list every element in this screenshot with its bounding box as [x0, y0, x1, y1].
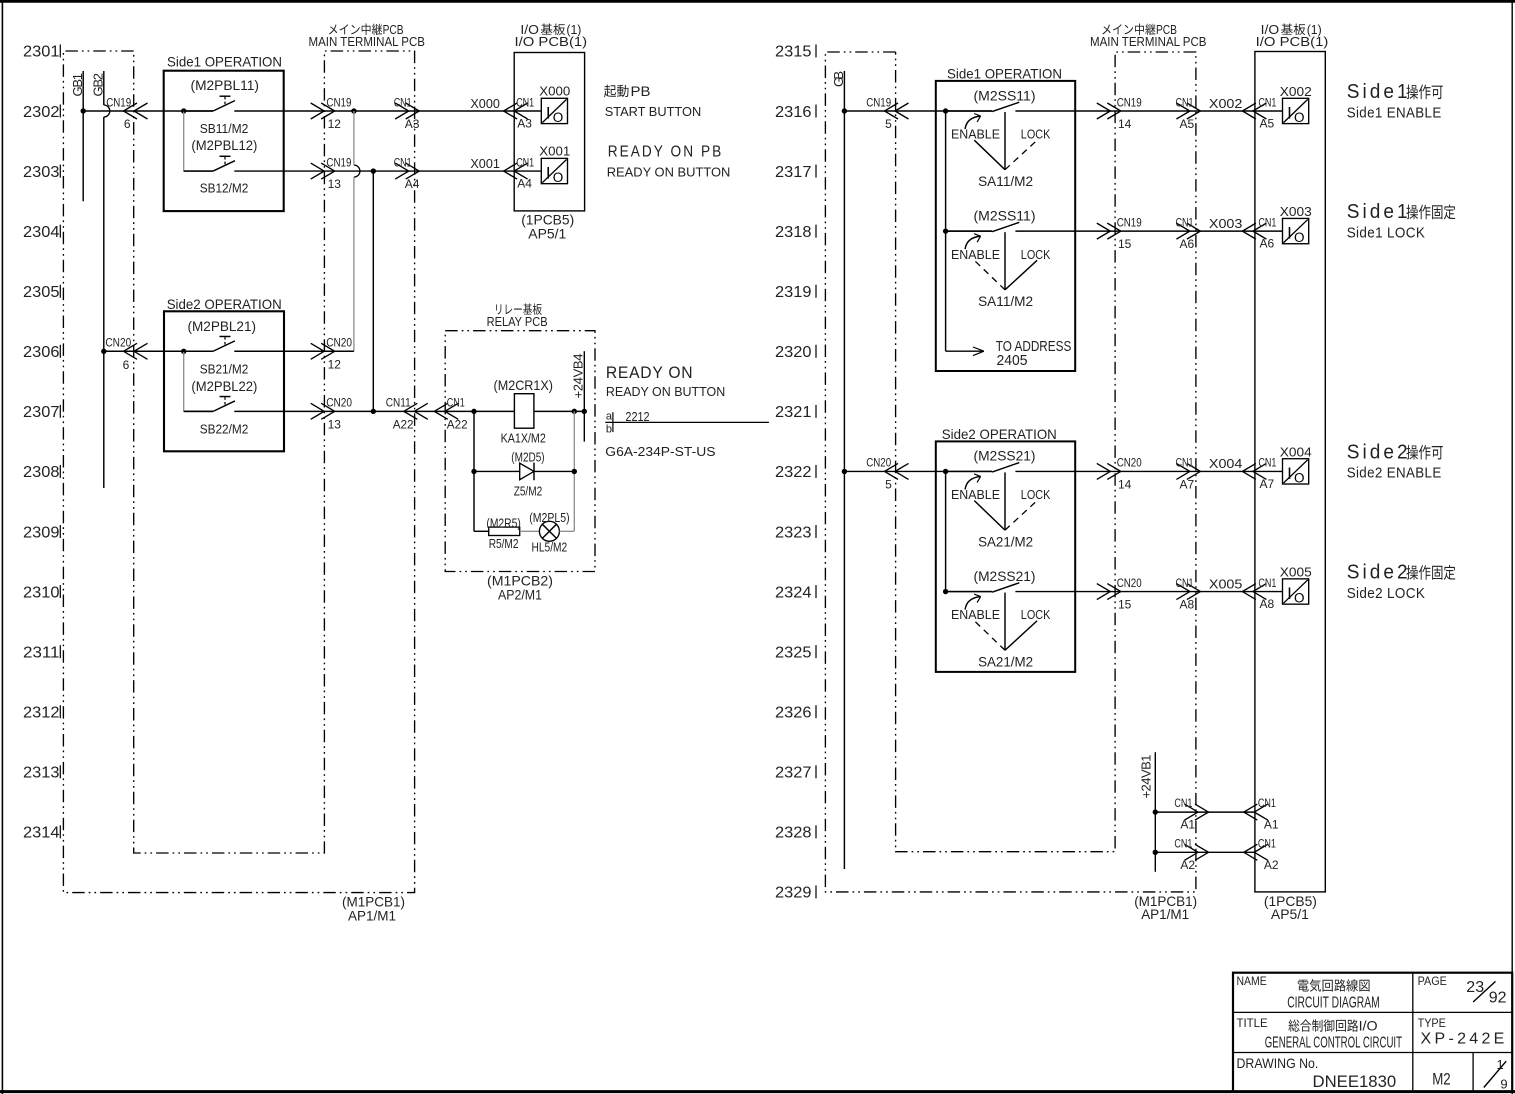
svg-text:I: I	[1287, 464, 1292, 483]
label M2SS21 b	[974, 568, 1036, 584]
arrow CN1 A2 main	[1185, 844, 1209, 860]
arrow CN19-5 row2316	[885, 103, 909, 119]
relay PCB AP2/M1 boundary (dash-dot box)	[445, 331, 595, 572]
svg-text:2212: 2212	[625, 409, 649, 424]
svg-text:READY ON BUTTON: READY ON BUTTON	[607, 165, 731, 180]
arrow CN19-6 row2302	[124, 103, 148, 119]
label M2PBL21	[188, 318, 257, 334]
svg-text:(M2D5): (M2D5)	[511, 449, 544, 464]
I/O input X001	[541, 158, 567, 185]
label X004 description	[1347, 441, 1443, 481]
junction rung2303 riser	[371, 168, 376, 173]
svg-text:O: O	[1294, 470, 1305, 485]
svg-text:(M2PBL12): (M2PBL12)	[191, 137, 257, 153]
bus GB1	[70, 71, 85, 201]
label CN19 pin13	[326, 155, 351, 191]
svg-text:SB22/M2: SB22/M2	[200, 421, 249, 436]
title block title japanese	[1288, 1018, 1377, 1034]
junction rung2307 riser	[371, 409, 376, 414]
label CN19 main row2318	[1117, 215, 1142, 229]
Side2 OPERATION panel box left	[164, 311, 284, 451]
label SA11/M2 a	[978, 173, 1033, 189]
title block DRAWING No	[1237, 1055, 1319, 1071]
svg-text:MAIN TERMINAL PCB: MAIN TERMINAL PCB	[1090, 35, 1207, 49]
label TO ADDRESS 2405	[996, 338, 1072, 369]
svg-text:A22: A22	[447, 417, 468, 431]
svg-text:2325: 2325	[775, 644, 812, 661]
PCB AP1/M1 (M1PCB1) boundary left half	[63, 51, 414, 893]
svg-text:Side2 LOCK: Side2 LOCK	[1347, 585, 1426, 602]
svg-text:A4: A4	[517, 177, 532, 191]
label net X005	[1209, 576, 1243, 591]
I/O input X004	[1283, 459, 1309, 486]
riser SA21 branch	[945, 471, 947, 591]
svg-text:CN1: CN1	[1176, 95, 1194, 109]
label X005 above symbol	[1280, 565, 1312, 580]
svg-text:(M2R5): (M2R5)	[486, 516, 520, 531]
svg-text:X005: X005	[1209, 576, 1243, 591]
svg-text:2405: 2405	[997, 352, 1028, 369]
label CN1 pinA4	[394, 155, 420, 191]
selector switch SA11/M2 b	[946, 222, 1038, 290]
svg-text:Side2 OPERATION: Side2 OPERATION	[942, 426, 1057, 442]
label CN19 pin5 row2316	[866, 95, 892, 131]
label M1PCB2 footer	[487, 572, 553, 602]
svg-text:START BUTTON: START BUTTON	[605, 104, 702, 119]
svg-text:SA21/M2: SA21/M2	[978, 654, 1033, 670]
junction SB21 branch	[181, 349, 186, 354]
label CN1 A5 row2316	[1176, 95, 1195, 131]
label CN20 pin12	[326, 336, 352, 372]
svg-text:13: 13	[328, 177, 342, 191]
label net X002	[1209, 96, 1243, 111]
label M2R5	[486, 516, 520, 531]
label M2SS11 b	[974, 207, 1036, 223]
svg-text:O: O	[553, 110, 564, 125]
pushbutton SB12/M2	[184, 156, 235, 171]
svg-text:X000: X000	[470, 96, 500, 111]
svg-text:A1: A1	[1180, 818, 1195, 832]
label ENABLE d	[951, 607, 1000, 622]
svg-text:2317: 2317	[775, 164, 812, 181]
pushbutton SB11/M2	[184, 96, 235, 111]
label CN1 A3 at I/O	[516, 95, 534, 130]
svg-text:5: 5	[885, 117, 892, 131]
svg-text:Side1 ENABLE: Side1 ENABLE	[1347, 104, 1442, 121]
junction SB11 branch	[181, 108, 186, 113]
junction diode right	[572, 469, 577, 474]
label CN1 A6 row2318	[1176, 215, 1195, 251]
arrow CN19-13 row2303	[311, 163, 335, 179]
arrow into X001	[504, 163, 528, 179]
label CN1 pinA3	[394, 95, 420, 131]
svg-text:2306: 2306	[23, 344, 60, 361]
svg-text:SB12/M2: SB12/M2	[200, 181, 249, 196]
svg-text:CIRCUIT DIAGRAM: CIRCUIT DIAGRAM	[1287, 994, 1380, 1011]
svg-text:X004: X004	[1280, 445, 1312, 460]
arrow CN20 main row2322	[1097, 463, 1121, 479]
svg-text:ENABLE: ENABLE	[951, 487, 1000, 502]
svg-text:2314: 2314	[23, 825, 60, 842]
svg-text:X000: X000	[539, 83, 570, 98]
svg-text:LOCK: LOCK	[1021, 127, 1051, 142]
label main pin 14 row2316	[1118, 117, 1132, 131]
arrow CN1 A2 io	[1244, 844, 1268, 860]
svg-text:MAIN TERMINAL PCB: MAIN TERMINAL PCB	[309, 35, 426, 49]
I/O input X003	[1283, 218, 1309, 245]
label net X003	[1209, 216, 1243, 231]
svg-text:XP-242E: XP-242E	[1421, 1031, 1508, 1048]
I/O PCB (1PCB5) box left half	[514, 53, 584, 211]
svg-text:2305: 2305	[23, 284, 60, 301]
arrow CN1 row2324	[1176, 584, 1200, 600]
svg-text:CN20: CN20	[326, 336, 352, 350]
svg-text:READY ON: READY ON	[606, 363, 693, 382]
label net X004	[1209, 456, 1243, 471]
svg-text:A22: A22	[393, 417, 414, 431]
svg-text:2307: 2307	[23, 404, 60, 421]
label main terminal PCB header right	[1090, 23, 1207, 49]
svg-text:2302: 2302	[23, 104, 60, 121]
svg-text:Side1 LOCK: Side1 LOCK	[1347, 224, 1426, 241]
svg-text:2301: 2301	[23, 44, 60, 61]
title block page 23/92	[1466, 979, 1506, 1007]
svg-text:I: I	[546, 164, 551, 183]
svg-text:SA11/M2: SA11/M2	[978, 173, 1033, 189]
junction +24VB1 A1	[1153, 809, 1158, 814]
label G6A-234P-ST-US	[605, 444, 716, 459]
wire rung 2303 READY ON PB circuit	[184, 170, 542, 172]
svg-text:NAME: NAME	[1237, 974, 1267, 988]
svg-text:A3: A3	[517, 117, 532, 131]
label SB22/M2	[200, 421, 249, 436]
title block M2	[1432, 1069, 1451, 1088]
svg-text:ENABLE: ENABLE	[951, 247, 1000, 262]
arrow CN1 row2316	[1176, 103, 1200, 119]
svg-text:READY ON BUTTON: READY ON BUTTON	[606, 384, 725, 399]
svg-text:HL5/M2: HL5/M2	[532, 540, 568, 555]
junction GB row 2322	[842, 469, 847, 474]
title block CIRCUIT DIAGRAM	[1287, 994, 1380, 1011]
hop GB2 over wire 2302	[104, 105, 110, 117]
label X003 above symbol	[1280, 204, 1312, 219]
bus GB2	[91, 71, 106, 488]
svg-text:Side1 OPERATION: Side1 OPERATION	[947, 66, 1062, 82]
label net X001	[470, 156, 500, 171]
svg-text:a: a	[606, 411, 613, 423]
junction GB row 2316	[842, 108, 847, 113]
arrow into X002	[1242, 103, 1266, 119]
right rung number column 2315-2329	[775, 44, 816, 902]
I/O PCB (1PCB5) box right half	[1255, 52, 1325, 892]
label M2PBL11	[191, 77, 260, 93]
svg-text:5: 5	[885, 477, 892, 491]
title block sheet 1/9	[1484, 1057, 1508, 1092]
svg-text:SA21/M2: SA21/M2	[978, 533, 1033, 549]
svg-text:CN20: CN20	[866, 456, 891, 470]
label CN1 A6 at I/O row2318	[1258, 215, 1276, 250]
svg-text:Side1: Side1	[1347, 81, 1411, 103]
label main pin 15 row2318	[1118, 237, 1132, 251]
arrow CN1-A22 relay	[434, 403, 458, 419]
svg-text:CN1: CN1	[1176, 576, 1194, 590]
label LOCK a	[1021, 127, 1051, 142]
junction SA11a branch	[943, 108, 948, 113]
arrow CN20-5 row2322	[885, 463, 909, 479]
svg-text:Side1 OPERATION: Side1 OPERATION	[167, 54, 282, 70]
label CN1 A1 main	[1174, 796, 1195, 832]
label M1PCB1 right	[1134, 893, 1197, 922]
label CN20 pin13	[326, 396, 352, 432]
label X003 description	[1347, 201, 1456, 241]
svg-text:2312: 2312	[23, 705, 60, 722]
svg-text:(M2PBL21): (M2PBL21)	[188, 318, 257, 334]
label M2PBL12	[191, 137, 257, 153]
svg-text:CN1: CN1	[1258, 215, 1276, 229]
selector switch SA21/M2 b	[946, 583, 1038, 651]
Side2 OPERATION panel box right	[936, 441, 1075, 672]
wire SB21 to SB22 branch	[183, 351, 185, 411]
svg-text:Z5/M2: Z5/M2	[514, 484, 543, 499]
resistor R5/M2	[489, 527, 520, 535]
title block XP-242E	[1421, 1031, 1508, 1048]
arrow CN1 A1 io	[1244, 804, 1268, 820]
svg-text:2310: 2310	[23, 584, 60, 601]
svg-text:6: 6	[123, 358, 130, 372]
svg-text:CN19: CN19	[1117, 95, 1142, 109]
label SB21/M2	[200, 361, 249, 376]
title block TYPE	[1418, 1016, 1446, 1030]
svg-text:2322: 2322	[775, 464, 812, 481]
supply +24VB4	[571, 351, 586, 441]
junction +24VB4 tap	[582, 409, 587, 414]
svg-text:15: 15	[1118, 237, 1132, 251]
junction relay right gray riser	[572, 409, 577, 414]
title block NAME	[1237, 974, 1267, 988]
wire rung 2302 START BUTTON circuit	[83, 110, 541, 112]
svg-text:2329: 2329	[775, 885, 812, 902]
svg-text:I: I	[546, 104, 551, 123]
label X004 above symbol	[1280, 445, 1312, 460]
svg-text:CN1: CN1	[394, 155, 412, 169]
svg-text:KA1X/M2: KA1X/M2	[501, 430, 546, 445]
label LOCK d	[1021, 607, 1051, 622]
riser SA11 branch	[945, 111, 947, 231]
svg-text:READY ON PB: READY ON PB	[608, 143, 724, 160]
label CN20 main row2322	[1117, 456, 1142, 470]
svg-text:I: I	[1287, 224, 1292, 243]
svg-text:X002: X002	[1280, 84, 1312, 99]
hop gray riser over rung 2303	[354, 165, 360, 177]
label M2PL5	[529, 510, 569, 525]
diode Z5/M2	[520, 463, 534, 481]
arrow CN19 main row2316	[1097, 103, 1121, 119]
label SA21/M2 b	[978, 654, 1033, 670]
wire rung 2322 X004	[844, 470, 1282, 472]
wire lamp rung left	[474, 530, 489, 532]
svg-text:CN1: CN1	[394, 95, 412, 109]
svg-text:A2: A2	[1264, 858, 1279, 872]
svg-text:M2: M2	[1432, 1069, 1451, 1088]
svg-text:LOCK: LOCK	[1021, 487, 1051, 502]
label start PB japanese	[604, 84, 701, 119]
label HL5/M2	[532, 540, 568, 555]
svg-text:Side1: Side1	[1347, 201, 1411, 223]
label SA11/M2 b	[978, 293, 1033, 309]
svg-text:A8: A8	[1260, 597, 1275, 611]
label CN1 pinA22 relay	[447, 396, 468, 432]
svg-text:CN20: CN20	[1117, 576, 1142, 590]
label CN1 A8 at I/O row2324	[1258, 576, 1276, 611]
svg-text:X003: X003	[1209, 216, 1243, 231]
svg-text:I/O PCB(1): I/O PCB(1)	[1256, 35, 1329, 49]
svg-text:AP1/M1: AP1/M1	[348, 908, 396, 924]
svg-text:A5: A5	[1180, 117, 1195, 131]
label M2SS11 a	[974, 87, 1036, 103]
svg-text:9: 9	[1500, 1077, 1507, 1092]
svg-text:2311: 2311	[23, 644, 60, 661]
label CN11 pinA22	[386, 396, 414, 432]
label relay PCB header	[487, 303, 548, 329]
junction SA11b branch	[943, 228, 948, 233]
svg-text:2313: 2313	[23, 765, 60, 782]
svg-text:LOCK: LOCK	[1021, 607, 1051, 622]
wire SB11 to SB12 branch (gray)	[183, 111, 185, 171]
svg-text:CN20: CN20	[105, 336, 131, 350]
svg-text:12: 12	[328, 357, 342, 371]
svg-text:ENABLE: ENABLE	[951, 127, 1000, 142]
relay contact ref a-b	[605, 409, 769, 435]
label ENABLE b	[951, 247, 1000, 262]
svg-text:+24VB4: +24VB4	[571, 354, 586, 399]
svg-text:2324: 2324	[775, 584, 812, 601]
label 1PCB5 footer left	[521, 212, 574, 242]
label CN19 pin12	[326, 95, 351, 131]
I/O input X000	[541, 98, 567, 125]
label M2PBL22	[191, 378, 257, 394]
lamp HL5/M2	[539, 521, 559, 541]
label X001 above symbol	[539, 144, 570, 159]
arrow CN1 A1 main	[1185, 804, 1209, 820]
svg-text:(M2PBL22): (M2PBL22)	[191, 378, 257, 394]
svg-text:SA11/M2: SA11/M2	[978, 293, 1033, 309]
bus GB right	[831, 71, 846, 869]
label R5/M2	[489, 536, 519, 551]
svg-text:2321: 2321	[775, 404, 812, 421]
label I/O PCB header right	[1256, 23, 1329, 49]
svg-text:15: 15	[1118, 598, 1132, 612]
svg-text:2323: 2323	[775, 524, 812, 541]
svg-text:6: 6	[124, 117, 131, 131]
svg-text:(M2CR1X): (M2CR1X)	[494, 377, 554, 393]
svg-text:CN1: CN1	[1258, 456, 1276, 470]
label Side2 OPERATION right	[942, 426, 1057, 442]
svg-text:SB21/M2: SB21/M2	[200, 361, 249, 376]
svg-text:CN1: CN1	[447, 396, 465, 410]
svg-text:2320: 2320	[775, 344, 812, 361]
label X002 above symbol	[1280, 84, 1312, 99]
svg-text:DNEE1830: DNEE1830	[1313, 1072, 1397, 1091]
wire resistor to lamp (gray)	[520, 530, 540, 532]
label ENABLE a	[951, 127, 1000, 142]
svg-text:CN20: CN20	[1117, 456, 1142, 470]
junction GB2 row 2306	[101, 349, 106, 354]
riser CN19-12 to CN20-12 (gray)	[353, 111, 355, 351]
junction CN19-12 row2302	[351, 108, 356, 113]
svg-text:CN11: CN11	[386, 396, 411, 410]
label X005 description	[1347, 561, 1456, 601]
svg-text:A6: A6	[1180, 237, 1195, 251]
label CN19 pin6	[106, 95, 131, 131]
svg-text:PB: PB	[631, 84, 651, 99]
title block GENERAL CONTROL CIRCUIT	[1265, 1034, 1402, 1051]
svg-text:2303: 2303	[23, 164, 60, 181]
svg-text:I: I	[1287, 584, 1292, 603]
junction relay left	[471, 409, 476, 414]
svg-text:GB2: GB2	[91, 73, 106, 97]
Side1 OPERATION panel box right	[936, 81, 1075, 371]
junction GB1 row 2302	[81, 108, 86, 113]
svg-text:CN1: CN1	[1258, 796, 1276, 810]
arrow into X000	[504, 103, 528, 119]
svg-text:2308: 2308	[23, 464, 60, 481]
arrow CN1-A3 row2302	[395, 103, 419, 119]
svg-text:CN19: CN19	[326, 155, 351, 169]
svg-text:(M2SS11): (M2SS11)	[974, 87, 1036, 103]
svg-text:A8: A8	[1180, 598, 1195, 612]
riser to address arrow	[946, 231, 984, 355]
svg-text:14: 14	[1118, 117, 1132, 131]
label Side1 OPERATION left	[167, 54, 282, 70]
svg-text:O: O	[1294, 110, 1305, 125]
label CN1 A2 main	[1174, 836, 1195, 872]
svg-text:CN19: CN19	[106, 95, 131, 109]
pushbutton SB21/M2	[184, 336, 235, 351]
label READY ON PB	[607, 143, 731, 179]
svg-text:A1: A1	[1264, 818, 1279, 832]
svg-text:AP1/M1: AP1/M1	[1141, 906, 1189, 922]
label CN1 A7 row2322	[1176, 456, 1195, 492]
svg-text:(M2SS11): (M2SS11)	[974, 207, 1036, 223]
relay coil KA1X/M2	[514, 394, 534, 429]
svg-text:X001: X001	[470, 156, 500, 171]
svg-text:A4: A4	[405, 177, 420, 191]
label main pin 14 row2322	[1118, 477, 1132, 491]
svg-text:CN19: CN19	[326, 95, 351, 109]
svg-text:12: 12	[328, 117, 342, 131]
wire rung 2324 X005	[946, 591, 1283, 593]
svg-text:AP5/1: AP5/1	[528, 226, 566, 242]
svg-text:X004: X004	[1209, 456, 1243, 471]
svg-text:13: 13	[328, 417, 342, 431]
label I/O PCB header left	[515, 23, 588, 49]
svg-text:CN1: CN1	[1176, 456, 1194, 470]
junction SA21b branch	[943, 589, 948, 594]
svg-text:A6: A6	[1260, 237, 1275, 251]
left rung number column 2301-2314	[23, 44, 60, 842]
label M2SS21 a	[974, 448, 1036, 464]
svg-text:CN1: CN1	[1258, 576, 1276, 590]
svg-text:X001: X001	[539, 144, 570, 159]
svg-text:(M2SS21): (M2SS21)	[974, 568, 1036, 584]
svg-text:(M2PBL11): (M2PBL11)	[191, 77, 260, 93]
label net X000	[470, 96, 500, 111]
title block DNEE1830	[1313, 1072, 1397, 1091]
arrow into X005	[1242, 584, 1266, 600]
svg-text:A2: A2	[1180, 858, 1195, 872]
arrow CN19-12 row2302	[311, 103, 335, 119]
svg-text:R5/M2: R5/M2	[489, 536, 519, 551]
